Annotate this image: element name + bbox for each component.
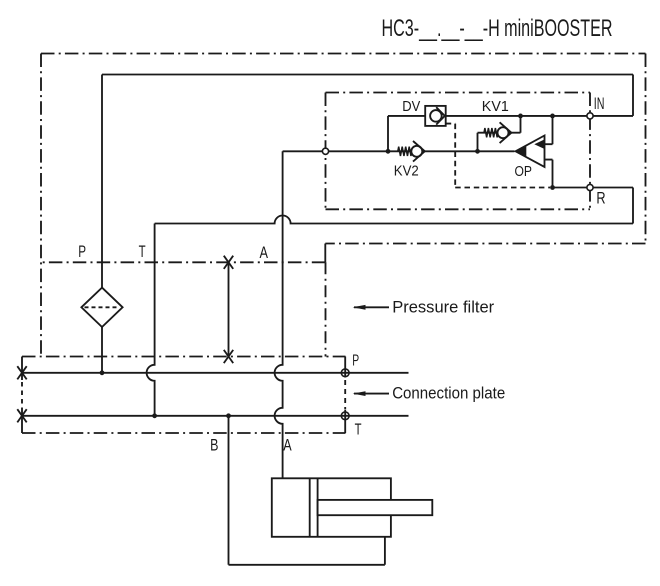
label T top [139, 242, 146, 261]
svg-text:KV1: KV1 [482, 98, 509, 115]
wire T return vertical [147, 224, 155, 416]
wire P supply top [102, 75, 633, 116]
port circle plate T [341, 412, 349, 420]
label A top [260, 243, 269, 262]
connection plate top edge dash-dot [22, 356, 346, 358]
wire DV branch vertical [387, 116, 389, 151]
annotation arrow connection plate [353, 391, 389, 396]
spring KV2 [398, 147, 412, 156]
plug X on boundary [224, 256, 233, 269]
plug X left T [17, 409, 26, 422]
svg-text:HC3-__.__-__-H miniBOOSTER: HC3-__.__-__-H miniBOOSTER [382, 15, 613, 42]
boundary dashed drop to plate [325, 262, 327, 356]
wire T return horizontal with hop over A [155, 216, 633, 224]
junction dot KV1 top [518, 114, 523, 119]
label KV1 [482, 98, 509, 115]
plug X on plate top [224, 350, 233, 363]
svg-text:KV2: KV2 [394, 163, 419, 180]
system boundary step segment [324, 244, 326, 263]
system boundary dash-dot left edge [40, 54, 42, 357]
connection plate bottom edge dash-dot [22, 432, 346, 434]
connection plate left edge [21, 357, 23, 434]
wire booster inlet from A corner [283, 150, 323, 152]
wire P rail [22, 372, 409, 374]
OP inlet arrowhead [516, 146, 527, 156]
wire OP drain to R [553, 187, 588, 189]
junction dot P rail [100, 370, 105, 375]
svg-text:B: B [210, 435, 218, 454]
wire A line vertical [275, 151, 283, 478]
label DV [402, 98, 420, 115]
label A bottom [283, 435, 292, 454]
wire B line [229, 416, 385, 565]
check valve DV [425, 106, 446, 126]
connection plate left edge dashed middle [21, 382, 23, 409]
title HC3 miniBOOSTER [382, 15, 613, 42]
junction dot T rail [152, 413, 157, 418]
oscillating pump OP outline [516, 136, 545, 168]
wire DV line [388, 115, 587, 117]
wire booster main line [328, 150, 514, 152]
junction dot OP drain [550, 185, 555, 190]
pilot line dashed DV to R [446, 124, 550, 188]
check valve KV2 [411, 141, 425, 162]
system boundary dash-dot right edge [645, 54, 647, 244]
system boundary dash-dot top edge [41, 53, 646, 55]
wire filter to P rail [101, 327, 103, 373]
svg-text:P: P [352, 352, 359, 369]
wire OP top stub [545, 116, 553, 144]
OP top arrowhead [534, 140, 544, 149]
cylinder rod [318, 500, 433, 515]
wire KV1 branch [478, 116, 521, 151]
connection plate right edge dashed middle [344, 380, 346, 409]
plugged line with X ends [228, 262, 230, 356]
svg-text:P: P [78, 242, 86, 261]
port circle booster left [322, 148, 328, 154]
svg-text:R: R [596, 189, 605, 208]
junction dot DV branch [386, 149, 391, 154]
svg-text:DV: DV [402, 98, 420, 115]
port circle IN [587, 113, 593, 119]
junction dot B on T rail [226, 413, 231, 418]
port circle plate P [341, 369, 349, 377]
check valve KV1 [498, 122, 512, 143]
wire R drop [593, 188, 633, 224]
svg-text:T: T [139, 242, 146, 261]
label KV2 [394, 163, 419, 180]
junction dot OP top [550, 114, 555, 119]
port circle R [587, 184, 593, 190]
svg-text:A: A [260, 243, 269, 262]
spring KV1 [484, 128, 498, 137]
wire T rail [22, 415, 409, 417]
annotation text pressure filter [392, 297, 494, 316]
label R [596, 189, 605, 208]
connection plate right edge [344, 357, 346, 434]
junction dot KV1 branch [475, 149, 480, 154]
label OP [515, 163, 533, 180]
pressure filter F [81, 288, 122, 327]
label plate P [352, 352, 359, 369]
svg-text:Pressure filter: Pressure filter [392, 297, 494, 316]
cylinder body [272, 478, 391, 537]
label P top [78, 242, 86, 261]
annotation text connection plate [392, 384, 505, 403]
system boundary dash-dot bottom-left edge [41, 261, 325, 263]
svg-text:A: A [283, 435, 292, 454]
annotation arrow pressure filter [353, 305, 389, 310]
label B [210, 435, 218, 454]
svg-text:Connection plate: Connection plate [392, 384, 505, 403]
plug X left P [17, 366, 26, 379]
svg-text:IN: IN [594, 94, 605, 113]
wire P vertical to filter [101, 75, 103, 288]
wire OP bottom stub [545, 160, 553, 188]
svg-text:OP: OP [515, 163, 533, 180]
svg-text:T: T [355, 422, 362, 439]
label plate T [355, 422, 362, 439]
label IN [594, 94, 605, 113]
cylinder piston [310, 478, 318, 537]
system boundary dash-dot bottom-right edge [325, 243, 645, 245]
booster enclosure dash-dot box [326, 93, 591, 210]
